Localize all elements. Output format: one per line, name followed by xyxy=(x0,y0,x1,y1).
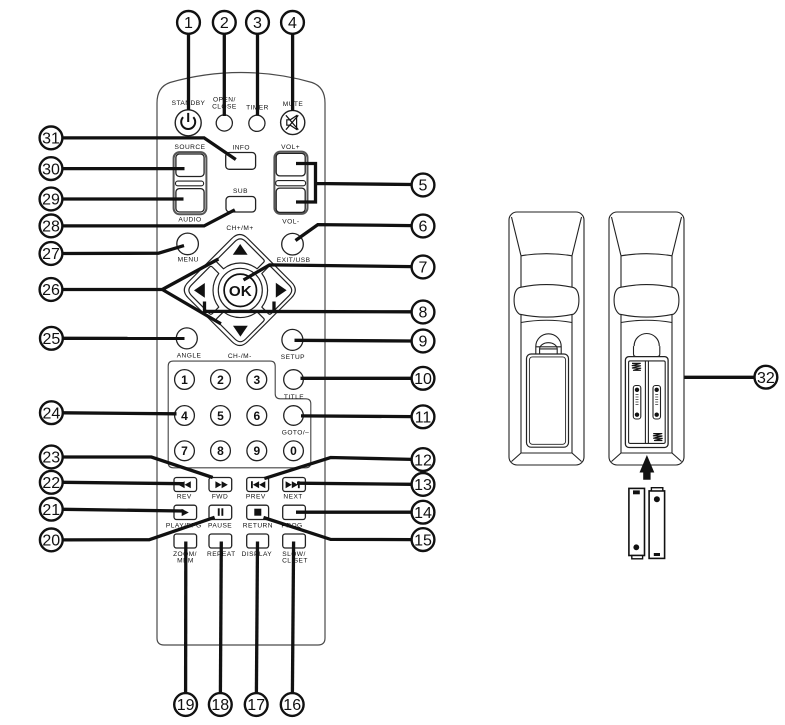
thumb notch B xyxy=(634,334,660,357)
callout 14 circle xyxy=(412,501,435,524)
svg-text:CH-/M-: CH-/M- xyxy=(228,353,252,360)
slow button xyxy=(283,534,306,548)
svg-text:15: 15 xyxy=(414,532,432,549)
svg-text:ANGLE: ANGLE xyxy=(177,352,202,359)
loose battery left xyxy=(629,488,645,558)
callout 21 circle xyxy=(40,498,63,521)
leader 7 xyxy=(244,265,412,280)
svg-text:5: 5 xyxy=(217,409,224,423)
leader 30 xyxy=(63,167,184,170)
exit/usb button xyxy=(282,233,304,255)
ok ring xyxy=(218,268,262,312)
callout 32 circle xyxy=(755,366,778,389)
svg-text:8: 8 xyxy=(419,305,428,322)
divider xyxy=(644,361,646,444)
callout 10 circle xyxy=(412,367,435,390)
digit button 5 xyxy=(211,406,231,426)
display button xyxy=(247,534,269,548)
digit button 6 xyxy=(247,406,267,426)
svg-text:AUDIO: AUDIO xyxy=(178,216,201,223)
spring top-left xyxy=(632,363,641,370)
loose battery right xyxy=(649,488,665,559)
svg-text:SETUP: SETUP xyxy=(281,354,305,361)
insert arrow xyxy=(640,455,655,480)
leader 29 xyxy=(63,197,183,200)
svg-text:EXIT/USB: EXIT/USB xyxy=(277,257,311,264)
MENU / EXIT ROW xyxy=(177,225,311,264)
leader 13 xyxy=(297,483,412,484)
svg-text:14: 14 xyxy=(414,505,432,522)
svg-text:32: 32 xyxy=(757,370,775,387)
callout 6 circle xyxy=(412,215,435,238)
digit button 7 xyxy=(175,441,195,461)
leader 5 bracket xyxy=(296,164,412,203)
angle button xyxy=(176,328,197,349)
leader 14 xyxy=(296,511,412,514)
digit button 8 xyxy=(211,441,231,461)
setup button xyxy=(282,329,303,350)
svg-text:25: 25 xyxy=(43,331,61,348)
svg-text:6: 6 xyxy=(419,219,428,236)
callout 3 circle xyxy=(246,11,269,34)
transport icons xyxy=(178,481,299,516)
callout 16 circle xyxy=(281,693,304,716)
svg-text:4: 4 xyxy=(288,15,297,32)
repeat button xyxy=(209,534,232,548)
TRANSPORT BUTTONS xyxy=(166,478,308,565)
leader 32 xyxy=(661,376,754,379)
callout 18 circle xyxy=(209,693,232,716)
svg-text:GOTO/–: GOTO/– xyxy=(282,429,310,436)
svg-text:31: 31 xyxy=(42,131,60,148)
leader 31 xyxy=(63,138,236,160)
leader 25 xyxy=(64,337,185,340)
menu button xyxy=(177,233,199,255)
leader 27 xyxy=(63,246,184,254)
digit button 1 xyxy=(175,370,195,390)
svg-text:TITLE: TITLE xyxy=(284,394,304,401)
leader 12 xyxy=(264,458,411,479)
arrow triangles xyxy=(194,244,287,337)
callout 11 circle xyxy=(412,405,435,428)
svg-text:18: 18 xyxy=(211,697,229,714)
svg-text:11: 11 xyxy=(415,410,432,427)
title button xyxy=(284,370,304,390)
callout 5 circle xyxy=(412,174,435,197)
leader 2 xyxy=(223,34,226,116)
callout 23 circle xyxy=(40,446,63,469)
digit button 0 xyxy=(284,441,304,461)
leader 17 xyxy=(256,542,257,694)
svg-text:28: 28 xyxy=(42,219,60,236)
svg-text:CH+/M+: CH+/M+ xyxy=(226,225,253,232)
svg-text:8: 8 xyxy=(217,444,224,458)
svg-text:12: 12 xyxy=(414,452,432,469)
leader 19 xyxy=(184,542,187,694)
svg-text:VOL-: VOL- xyxy=(282,219,299,226)
NUMBER PAD xyxy=(168,361,311,468)
next button xyxy=(283,478,306,492)
svg-text:6: 6 xyxy=(253,409,260,423)
callout 30 circle xyxy=(40,157,63,180)
svg-text:21: 21 xyxy=(42,502,60,519)
leader 6 xyxy=(296,225,412,241)
svg-text:9: 9 xyxy=(419,334,428,351)
leader 3 xyxy=(256,34,259,116)
leader 4 xyxy=(291,34,294,111)
svg-text:3: 3 xyxy=(253,373,260,387)
mute button xyxy=(281,110,305,134)
digit buttons xyxy=(175,370,304,461)
transport labels xyxy=(166,493,308,564)
leader 24 xyxy=(64,413,177,414)
arrow pills xyxy=(189,239,292,342)
digit button 4 xyxy=(175,406,195,426)
callout 12 circle xyxy=(412,448,435,471)
ANGLE / SETUP ROW xyxy=(176,328,305,361)
callout 1 circle xyxy=(177,11,200,34)
rev button xyxy=(174,478,197,492)
callout 24 circle xyxy=(40,401,63,424)
callout 19 circle xyxy=(174,693,197,716)
back remote shell (open view) xyxy=(609,212,684,465)
leader 28 xyxy=(63,210,235,226)
numpad border xyxy=(168,361,311,468)
svg-text:9: 9 xyxy=(253,444,260,458)
pause button xyxy=(209,505,232,519)
battery cover A xyxy=(527,354,569,447)
play button xyxy=(174,505,197,519)
digit button 2 xyxy=(211,370,231,390)
callout 22 circle xyxy=(40,471,63,494)
leader 23 xyxy=(63,457,212,478)
svg-text:0: 0 xyxy=(290,444,297,458)
return button xyxy=(247,505,269,519)
svg-text:RETURN: RETURN xyxy=(243,523,273,530)
timer button xyxy=(249,115,265,131)
svg-text:REV: REV xyxy=(177,493,192,500)
svg-text:22: 22 xyxy=(42,475,60,492)
prev button xyxy=(247,478,269,492)
svg-text:7: 7 xyxy=(181,444,188,458)
svg-text:VOL+: VOL+ xyxy=(281,144,300,151)
svg-text:SUB: SUB xyxy=(233,188,248,195)
callout 15 circle xyxy=(412,528,435,551)
leader 21 xyxy=(63,509,183,511)
svg-text:2: 2 xyxy=(217,373,224,387)
leader 15 xyxy=(264,518,412,540)
svg-text:FWD: FWD xyxy=(212,493,228,500)
svg-text:NEXT: NEXT xyxy=(283,493,302,500)
svg-text:23: 23 xyxy=(42,450,60,467)
svg-text:16: 16 xyxy=(283,697,301,714)
callout 26 circle xyxy=(40,278,63,301)
dpad diamond xyxy=(184,235,295,346)
spring bottom-right xyxy=(653,434,662,441)
callout 20 circle xyxy=(40,529,63,552)
battery cell right xyxy=(653,386,661,420)
digit button 3 xyxy=(247,370,267,390)
callout 7 circle xyxy=(412,256,435,279)
leader 9 xyxy=(295,339,412,343)
svg-text:1: 1 xyxy=(184,15,193,32)
callout 17 circle xyxy=(245,693,268,716)
BACK REMOTES xyxy=(509,212,684,559)
callout 2 circle xyxy=(213,11,236,34)
leader 10 xyxy=(301,377,412,380)
sub button xyxy=(226,197,256,213)
svg-text:1: 1 xyxy=(181,373,188,387)
info button xyxy=(226,153,256,170)
callout 29 circle xyxy=(40,188,63,211)
callout 4 circle xyxy=(281,11,304,34)
svg-text:10: 10 xyxy=(414,371,432,388)
callout 28 circle xyxy=(40,215,63,238)
vol rocker xyxy=(274,152,307,214)
battery cell left xyxy=(633,386,641,420)
leader 8 xyxy=(205,302,412,312)
svg-text:7: 7 xyxy=(419,260,428,277)
callout 31 circle xyxy=(40,126,63,149)
digit button 9 xyxy=(247,441,267,461)
open/close button xyxy=(216,115,232,131)
ROCKERS AND INFO/SUB xyxy=(174,144,308,226)
leader 1 xyxy=(187,34,190,110)
svg-text:27: 27 xyxy=(42,246,60,263)
svg-text:19: 19 xyxy=(177,697,195,714)
D-PAD xyxy=(184,235,295,346)
svg-text:24: 24 xyxy=(43,405,61,422)
leader 18 xyxy=(219,542,223,694)
svg-text:17: 17 xyxy=(247,697,265,714)
fwd button xyxy=(209,478,232,492)
prog button xyxy=(283,505,306,519)
svg-text:30: 30 xyxy=(42,161,60,178)
callout 13 circle xyxy=(412,473,435,496)
TOP BUTTON ROW xyxy=(172,97,305,136)
back remote shell (cover view) xyxy=(509,212,584,465)
remote body outline xyxy=(157,73,325,646)
callout 9 circle xyxy=(412,330,435,353)
svg-text:SOURCE: SOURCE xyxy=(175,144,206,151)
svg-text:INFO: INFO xyxy=(232,144,250,151)
callout 8 circle xyxy=(412,301,435,324)
svg-text:4: 4 xyxy=(181,409,188,423)
leader 11 xyxy=(301,414,412,418)
leader 26 xyxy=(63,259,221,324)
callout 27 circle xyxy=(40,242,63,265)
battery compartment B xyxy=(625,357,668,448)
source/audio rocker xyxy=(174,152,207,214)
svg-text:26: 26 xyxy=(42,282,60,299)
leader 22 xyxy=(63,482,183,483)
ok button xyxy=(224,274,256,306)
svg-text:5: 5 xyxy=(419,178,428,195)
leader 16 xyxy=(292,542,293,694)
callout 25 circle xyxy=(40,327,63,350)
svg-text:3: 3 xyxy=(253,15,262,32)
zoom button xyxy=(174,534,197,548)
svg-text:29: 29 xyxy=(42,192,60,209)
FRONT REMOTE BODY xyxy=(157,73,325,646)
thumb notch A xyxy=(536,334,561,356)
leader 20 xyxy=(63,517,214,540)
svg-text:PAUSE: PAUSE xyxy=(208,523,232,530)
svg-text:OK: OK xyxy=(229,283,252,300)
svg-text:MENU: MENU xyxy=(178,256,199,263)
goto button xyxy=(284,406,304,426)
svg-text:20: 20 xyxy=(42,533,60,550)
standby button xyxy=(175,110,201,136)
svg-text:2: 2 xyxy=(220,15,229,32)
svg-text:PREV: PREV xyxy=(246,493,266,500)
svg-text:13: 13 xyxy=(414,477,432,494)
